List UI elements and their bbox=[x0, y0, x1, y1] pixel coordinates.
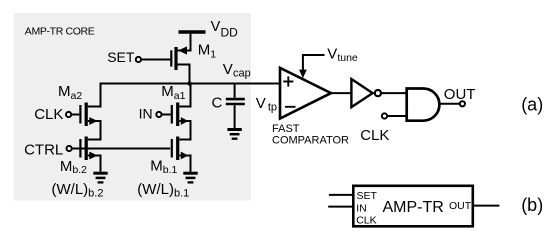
wire CLK to NAND bottom input bbox=[388, 115, 407, 117]
ground below Mb1 bbox=[183, 173, 197, 182]
wire IN input to AMP-TR block bbox=[328, 206, 354, 208]
svg-text:C: C bbox=[212, 95, 223, 112]
svg-text:COMPARATOR: COMPARATOR bbox=[272, 134, 349, 146]
transistor Mb1 gate bar bbox=[171, 139, 173, 158]
wire VDD to M1 source bbox=[178, 32, 191, 51]
transistor M1 (PMOS) source arrow bbox=[178, 46, 187, 54]
wire capacitor to ground bbox=[234, 105, 236, 128]
wire comparator output to inverter bbox=[331, 92, 352, 94]
transistor Ma1 gate bar bbox=[171, 105, 173, 124]
CLK terminal circle (gate input) bbox=[382, 113, 387, 118]
capacitor C bottom plate bbox=[226, 103, 245, 106]
transistor Mb2 gate bar bbox=[79, 139, 81, 158]
ground below Mb2 bbox=[93, 173, 107, 182]
CTRL terminal circle bbox=[67, 146, 72, 151]
wire SET input to AMP-TR block bbox=[329, 194, 354, 196]
wire SET to M1 gate bbox=[142, 59, 171, 61]
wire Mb2 source to ground bbox=[88, 156, 101, 172]
svg-text:AMP-TR CORE: AMP-TR CORE bbox=[25, 25, 95, 37]
svg-text:CTRL: CTRL bbox=[24, 141, 63, 158]
AMP-TR CORE shaded region bbox=[14, 13, 252, 201]
svg-text:IN: IN bbox=[139, 106, 153, 122]
transistor Ma2 channel bar bbox=[85, 103, 88, 127]
wire rail down to Ma2 drain bbox=[88, 83, 101, 107]
transistor Ma2 gate bar bbox=[79, 105, 81, 124]
wire Vcap rail bbox=[100, 83, 281, 85]
svg-text:SET: SET bbox=[107, 49, 135, 65]
op-amp U1 fast comparator triangle bbox=[280, 68, 331, 119]
transistor Ma2 source arrow bbox=[89, 117, 97, 125]
VDD supply bar bbox=[179, 30, 206, 33]
AMP-TR block box bbox=[353, 186, 473, 227]
wire gate output bbox=[440, 103, 460, 105]
svg-text:OUT: OUT bbox=[444, 86, 476, 103]
inverter triangle bbox=[351, 79, 372, 107]
svg-text:AMP-TR: AMP-TR bbox=[383, 199, 444, 216]
svg-text:IN: IN bbox=[356, 202, 367, 214]
wire inverter to NAND top input bbox=[381, 92, 407, 94]
transistor M1 gate bar bbox=[170, 50, 172, 66]
comparator plus input bbox=[283, 76, 293, 86]
wire OUT output from AMP-TR block bbox=[473, 205, 500, 207]
transistor Mb1 channel bar bbox=[176, 137, 179, 161]
ground below capacitor bbox=[227, 130, 241, 139]
wire Ma1 source to Mb1 drain bbox=[179, 121, 190, 140]
transistor Ma1 source arrow bbox=[181, 117, 188, 125]
node Vcap junction dot bbox=[187, 81, 191, 85]
AND gate bbox=[407, 89, 440, 121]
wire IN to Ma1 gate bbox=[162, 114, 171, 116]
svg-text:(b): (b) bbox=[521, 195, 543, 215]
comparator minus input bbox=[285, 106, 296, 108]
transistor Mb1 source arrow bbox=[181, 152, 188, 160]
wire CLK to Ma2 gate bbox=[72, 114, 80, 116]
SET terminal circle bbox=[136, 57, 141, 62]
wire rail down to Ma1 drain bbox=[179, 84, 190, 107]
inverter bubble bbox=[375, 90, 381, 96]
Vtune arrowhead bbox=[299, 70, 307, 79]
CLK terminal circle bbox=[66, 112, 71, 117]
transistor Mb2 source arrow bbox=[89, 152, 97, 160]
svg-text:SET: SET bbox=[357, 190, 378, 202]
wire rail to capacitor top plate bbox=[234, 84, 236, 98]
IN terminal circle bbox=[156, 112, 161, 117]
transistor M1 channel bar bbox=[174, 47, 177, 70]
svg-text:CLK: CLK bbox=[360, 127, 389, 144]
wire Mb1 source to ground bbox=[179, 156, 190, 172]
transistor Mb2 channel bar bbox=[85, 137, 88, 161]
wire M1 drain down to Vcap rail bbox=[178, 65, 190, 84]
wire Vtune pointer bbox=[303, 55, 325, 71]
svg-text:CLK: CLK bbox=[34, 106, 63, 123]
svg-text:CLK: CLK bbox=[356, 214, 376, 226]
wire CTRL to Mb2 gate and on to Mb1 gate bbox=[72, 148, 170, 150]
capacitor C top plate bbox=[226, 98, 245, 101]
svg-text:FAST: FAST bbox=[272, 123, 300, 135]
svg-text:OUT: OUT bbox=[449, 200, 472, 212]
OUT terminal circle bbox=[460, 101, 465, 106]
transistor Ma1 channel bar bbox=[176, 103, 179, 127]
svg-text:(a): (a) bbox=[521, 95, 543, 115]
wire Ma2 source to Mb2 drain bbox=[88, 121, 101, 140]
